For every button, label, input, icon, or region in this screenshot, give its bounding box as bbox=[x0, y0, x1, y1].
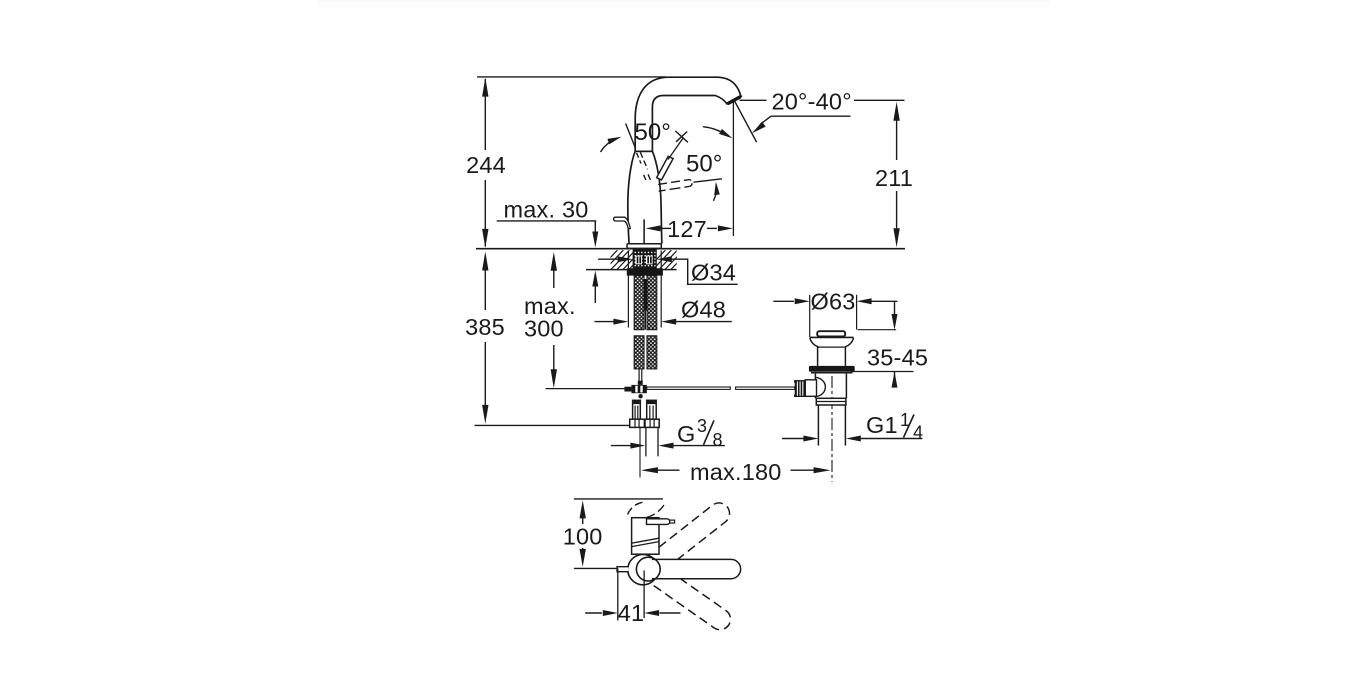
drain body bbox=[814, 374, 816, 399]
50deg lower arc arrow bbox=[713, 185, 716, 201]
50deg upper: right arc arrow bbox=[703, 127, 728, 136]
spout tip extension line bbox=[732, 101, 734, 236]
topview body bbox=[632, 518, 659, 555]
topview dashed spout arcs bbox=[628, 502, 643, 514]
drain neck bbox=[817, 347, 819, 366]
dim 100 bbox=[574, 498, 663, 500]
faucet body bbox=[628, 151, 635, 244]
svg-text:G: G bbox=[677, 421, 695, 447]
left center line bbox=[639, 427, 641, 477]
faint image edge band bbox=[317, 0, 1050, 2]
cross marker bbox=[675, 131, 688, 142]
drain socket arc bbox=[816, 377, 825, 396]
dim G3/8 bbox=[611, 445, 631, 447]
svg-text:Ø48: Ø48 bbox=[681, 297, 726, 323]
dim max 300 bbox=[551, 252, 557, 271]
svg-text:G1: G1 bbox=[866, 412, 898, 438]
hose end nuts bbox=[630, 419, 645, 427]
svg-text:50°: 50° bbox=[635, 119, 671, 146]
countertop line bbox=[476, 248, 905, 250]
svg-text:3: 3 bbox=[697, 416, 707, 436]
svg-text:max.180: max.180 bbox=[690, 459, 782, 485]
topview lever bbox=[648, 559, 740, 578]
topview dashed swing lever upper bbox=[642, 503, 730, 577]
drain side knob bbox=[795, 380, 806, 397]
aerator face bbox=[728, 97, 741, 104]
counter bottom lines bbox=[586, 269, 628, 271]
drain center line bbox=[831, 376, 833, 482]
lever axis line to cross bbox=[668, 138, 684, 160]
topview lever knob bbox=[647, 519, 670, 525]
pop-up rod inside body bbox=[643, 220, 645, 245]
50deg upper: left arc arrow bbox=[601, 139, 616, 152]
G3/8 tail tube bbox=[645, 427, 647, 456]
pop-up rod knob bbox=[614, 217, 631, 229]
svg-text:max. 30: max. 30 bbox=[504, 196, 589, 222]
faucet spout outline bbox=[635, 77, 741, 151]
svg-text:385: 385 bbox=[465, 314, 505, 340]
topview hub outer circle bbox=[628, 554, 658, 584]
dim 41 bbox=[617, 568, 619, 620]
dim 35-45 bbox=[894, 301, 896, 315]
mounting nut band bbox=[627, 268, 663, 275]
dim 211 bbox=[893, 102, 899, 121]
braided supply hoses upper bbox=[634, 276, 644, 330]
horizontal pull rod bbox=[546, 388, 625, 390]
hose connector nuts bbox=[633, 400, 641, 419]
dim O48 bbox=[627, 251, 629, 328]
drain lower ring bbox=[816, 398, 846, 405]
svg-text:Ø34: Ø34 bbox=[691, 259, 736, 285]
closed-lever dash-dot marks bbox=[640, 152, 647, 169]
spray direction line bbox=[734, 101, 756, 143]
pop-up rod below hoses bbox=[638, 369, 640, 381]
top extension line bbox=[477, 76, 666, 78]
joint line bbox=[635, 150, 652, 152]
dim 127 bbox=[643, 219, 645, 244]
dim O34 bbox=[598, 258, 618, 260]
drain plug cap bbox=[817, 331, 845, 336]
drain flange bbox=[810, 336, 854, 338]
svg-text:244: 244 bbox=[466, 152, 506, 178]
dim 20-40 leader bbox=[740, 99, 767, 101]
topview dashed swing lever lower bbox=[642, 560, 730, 629]
counter section hatching left bbox=[598, 250, 654, 271]
topview pop-up rod pin bbox=[617, 567, 629, 572]
svg-text:8: 8 bbox=[713, 430, 723, 450]
svg-text:211: 211 bbox=[875, 165, 913, 191]
drain gasket bbox=[809, 366, 855, 372]
lever handle (solid, tilted) bbox=[657, 156, 674, 180]
svg-text:100: 100 bbox=[563, 524, 603, 550]
dim 244 bbox=[484, 79, 486, 150]
bottom extension line bbox=[475, 424, 630, 426]
threaded shank through counter bbox=[633, 250, 656, 268]
base plinth bbox=[627, 244, 661, 249]
counter section hatching right bbox=[646, 250, 702, 271]
rod tee fitting bbox=[624, 387, 631, 392]
dim max.180 bbox=[641, 467, 658, 473]
pop-up rod between hoses bbox=[644, 279, 647, 311]
drain tailpipe bbox=[817, 405, 819, 446]
svg-text:Ø63: Ø63 bbox=[810, 289, 855, 315]
svg-text:50°: 50° bbox=[686, 151, 722, 178]
svg-text:127: 127 bbox=[667, 216, 707, 242]
svg-text:300: 300 bbox=[524, 315, 564, 341]
svg-text:4: 4 bbox=[913, 422, 923, 442]
50deg upper: left tick bbox=[626, 124, 636, 149]
svg-text:35-45: 35-45 bbox=[867, 345, 928, 371]
svg-text:20°-40°: 20°-40° bbox=[772, 88, 852, 114]
svg-text:41: 41 bbox=[618, 600, 645, 626]
dim G1 1/4 bbox=[782, 438, 804, 440]
dim O63 bbox=[809, 295, 811, 337]
open lever dashed outline bbox=[658, 180, 689, 185]
braided supply hoses lower bbox=[634, 336, 644, 369]
open lever centerline bbox=[694, 179, 722, 182]
dim 385 bbox=[482, 252, 488, 271]
